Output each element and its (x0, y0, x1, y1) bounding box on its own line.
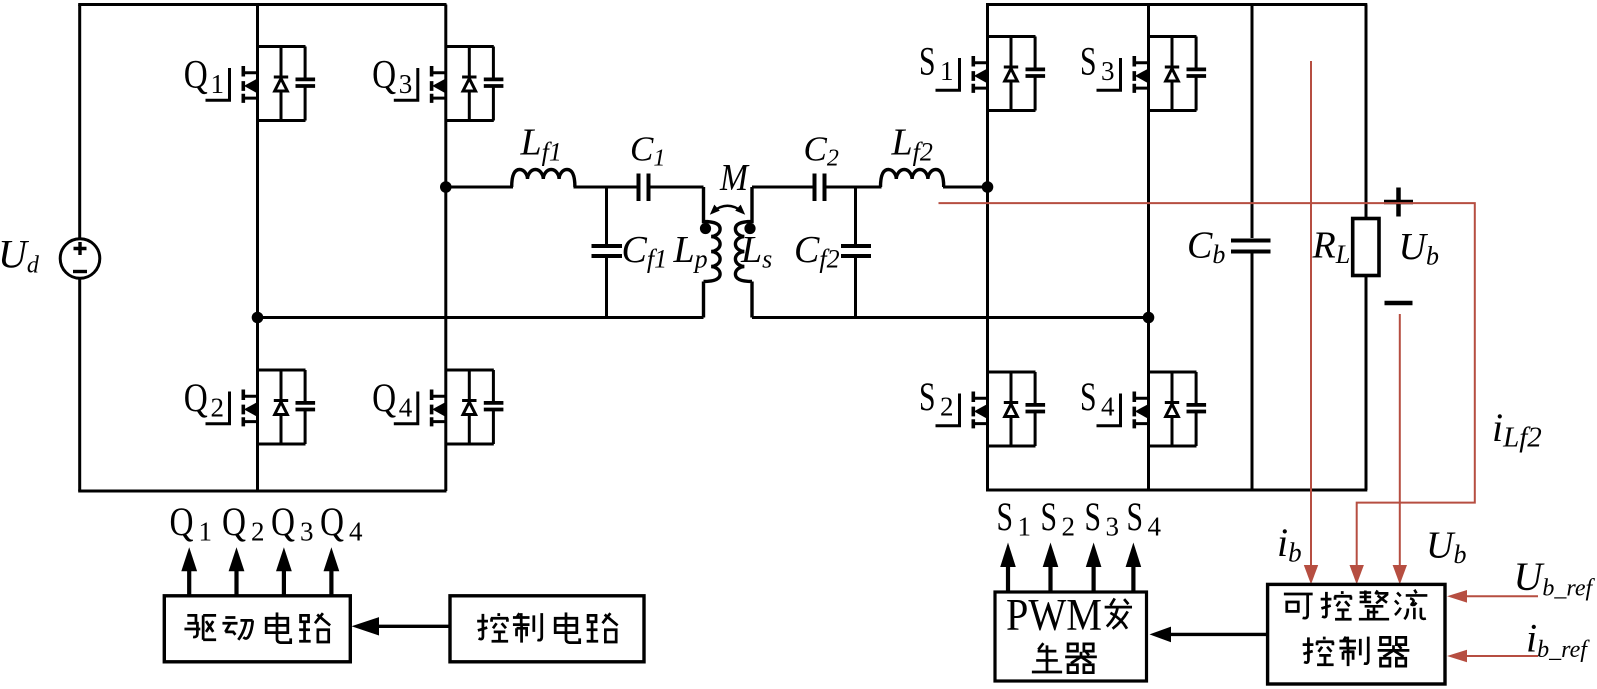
transistor Q1 (206, 47, 316, 121)
plus terminal (1384, 188, 1413, 217)
text drive circuit (Chinese) (184, 615, 216, 639)
wire Ub sense (1399, 314, 1401, 578)
node secondary output junction (982, 181, 994, 193)
voltage source Ud (60, 239, 100, 279)
svg-text:M: M (719, 157, 750, 199)
wire ib_ref input (1466, 655, 1538, 657)
node primary return junction (252, 312, 264, 324)
arrow controller to PWM (1171, 633, 1268, 636)
wire primary output to Lf1 and C1 (446, 186, 704, 189)
transistor S3 (1097, 37, 1207, 111)
arrow gate drive S1 (1000, 543, 1016, 593)
arrow gate drive S3 (1086, 543, 1102, 593)
capacitor Cb (1231, 241, 1271, 252)
transistor S4 (1097, 372, 1207, 446)
transistor Q2 (206, 370, 316, 444)
wire Q3/Q4 leg (444, 5, 447, 492)
wire secondary bottom rail (752, 316, 1149, 319)
wire Q1/Q2 leg (256, 5, 259, 492)
wire left bridge bottom rail (78, 490, 446, 493)
minus terminal (1385, 301, 1413, 306)
wire RL branch (1365, 5, 1368, 491)
inductor Lf2 (881, 170, 944, 188)
wire left edge with source gap (78, 5, 81, 492)
arrowhead ib_ref (1447, 650, 1467, 663)
node secondary return junction (1143, 312, 1155, 324)
wire S3/S4 leg (1147, 5, 1150, 491)
arrowhead ib (1304, 565, 1318, 584)
transistor Q3 (394, 47, 504, 121)
wire left bridge top rail (78, 3, 446, 6)
block control circuit box (450, 596, 644, 662)
wire ib sense (1310, 61, 1312, 578)
wire right bridge bottom rail (986, 489, 1367, 492)
block rectifier controller box (1268, 584, 1445, 684)
arrow control to drive (377, 625, 450, 628)
arrow gate drive Q4 (324, 547, 340, 596)
wire Ub_ref input (1466, 595, 1538, 597)
wire secondary top: C2, Lf2 (752, 186, 988, 189)
wire right bridge top rail (986, 3, 1367, 6)
wire iLf2 sense (939, 203, 1475, 578)
block drive circuit box (164, 596, 350, 662)
red feedback lines (939, 61, 1539, 656)
arrowhead Ub_ref (1447, 590, 1467, 603)
text control circuit (Chinese) (477, 613, 508, 641)
capacitor Cf1 (605, 187, 608, 318)
arrowhead Ub (1393, 565, 1407, 584)
transistor S1 (936, 37, 1046, 111)
text PWM generator (Chinese) (1105, 598, 1132, 628)
coupling arrow M (713, 206, 742, 212)
wire Cb branch (1251, 5, 1254, 491)
block PWM generator box (995, 592, 1147, 681)
inductor Lf1 (512, 170, 575, 188)
wire primary bottom rail (258, 316, 704, 319)
resistor RL (1353, 219, 1379, 276)
wire S1/S2 leg (986, 5, 989, 491)
arrow gate drive Q2 (229, 547, 245, 596)
capacitor Cf2 (854, 187, 857, 318)
arrow gate drive S4 (1126, 543, 1142, 593)
svg-text:PWM: PWM (1006, 590, 1102, 640)
text rectifier controller (Chinese) (1284, 594, 1313, 618)
transistor Q4 (394, 370, 504, 444)
coil Lp (704, 187, 721, 318)
arrow gate drive Q1 (181, 547, 197, 596)
capacitor C2 (815, 174, 825, 202)
arrow gate drive S2 (1043, 543, 1059, 593)
coil Ls (735, 187, 752, 318)
arrow gate drive Q3 (276, 547, 292, 596)
node primary output junction (440, 181, 452, 193)
transistor S2 (936, 372, 1046, 446)
arrowhead iLf2 (1350, 565, 1364, 584)
capacitor C1 (639, 174, 649, 202)
